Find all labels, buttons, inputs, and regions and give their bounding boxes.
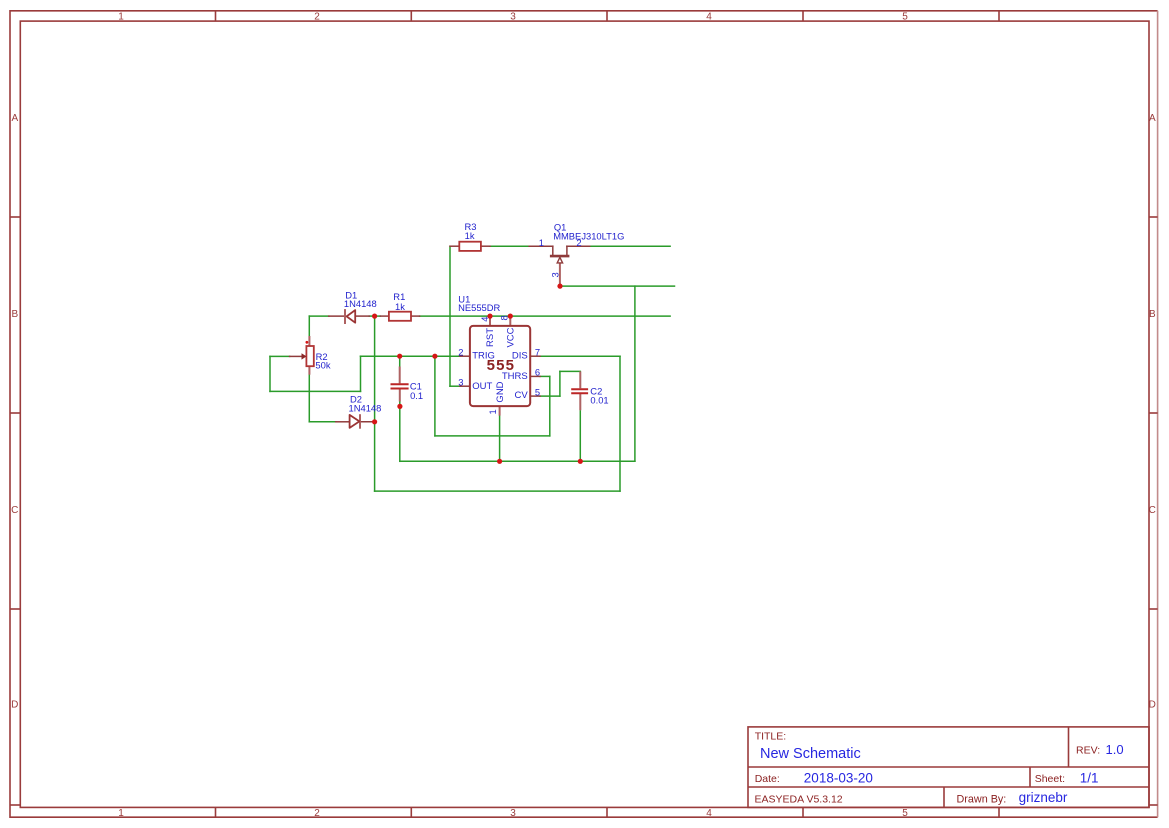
svg-text:1: 1 [539,237,544,248]
svg-text:3: 3 [550,272,561,277]
svg-text:0.1: 0.1 [410,390,423,401]
svg-text:1: 1 [487,409,498,414]
svg-text:CV: CV [514,390,528,401]
svg-text:A: A [11,113,18,124]
svg-text:4: 4 [479,316,490,321]
svg-text:1.0: 1.0 [1106,742,1124,757]
svg-text:3: 3 [510,12,516,23]
svg-text:3: 3 [510,808,516,819]
svg-text:TITLE:: TITLE: [755,730,787,742]
svg-text:8: 8 [498,315,509,320]
svg-text:1k: 1k [465,230,475,241]
svg-text:C: C [1149,505,1156,516]
svg-text:RST: RST [485,328,496,347]
svg-text:1/1: 1/1 [1080,771,1099,786]
svg-text:50k: 50k [315,360,330,371]
svg-text:1: 1 [118,808,124,819]
svg-text:B: B [11,309,18,320]
svg-text:555: 555 [487,357,516,374]
svg-text:6: 6 [535,367,540,378]
svg-text:griznebr: griznebr [1019,790,1068,805]
svg-text:5: 5 [902,12,908,23]
svg-text:0.01: 0.01 [590,395,608,406]
svg-text:A: A [1149,113,1156,124]
svg-text:2: 2 [314,808,320,819]
svg-text:1k: 1k [395,301,405,312]
svg-text:New Schematic: New Schematic [760,746,861,762]
svg-text:D: D [1149,700,1156,711]
svg-text:NE555DR: NE555DR [458,302,500,313]
svg-text:B: B [1149,309,1156,320]
svg-text:4: 4 [706,12,712,23]
svg-text:1: 1 [118,12,124,23]
svg-text:4: 4 [706,808,712,819]
svg-text:5: 5 [535,386,540,397]
svg-text:OUT: OUT [472,381,492,392]
svg-text:Date:: Date: [755,773,780,785]
svg-text:2: 2 [458,346,463,357]
svg-text:1N4148: 1N4148 [349,402,382,413]
svg-text:2018-03-20: 2018-03-20 [804,771,873,786]
svg-text:7: 7 [535,346,540,357]
svg-text:REV:: REV: [1076,745,1100,757]
svg-text:1N4148: 1N4148 [344,298,377,309]
svg-text:3: 3 [458,376,463,387]
svg-text:2: 2 [314,12,320,23]
svg-text:2: 2 [576,237,581,248]
svg-text:C: C [11,505,18,516]
svg-text:Sheet:: Sheet: [1035,773,1065,785]
svg-text:GND: GND [495,381,506,402]
svg-text:VCC: VCC [505,327,516,347]
svg-text:MMBEJ310LT1G: MMBEJ310LT1G [553,231,624,242]
svg-text:5: 5 [902,808,908,819]
svg-text:D: D [11,700,18,711]
svg-text:EASYEDA V5.3.12: EASYEDA V5.3.12 [755,793,843,805]
svg-text:Drawn By:: Drawn By: [957,793,1007,805]
